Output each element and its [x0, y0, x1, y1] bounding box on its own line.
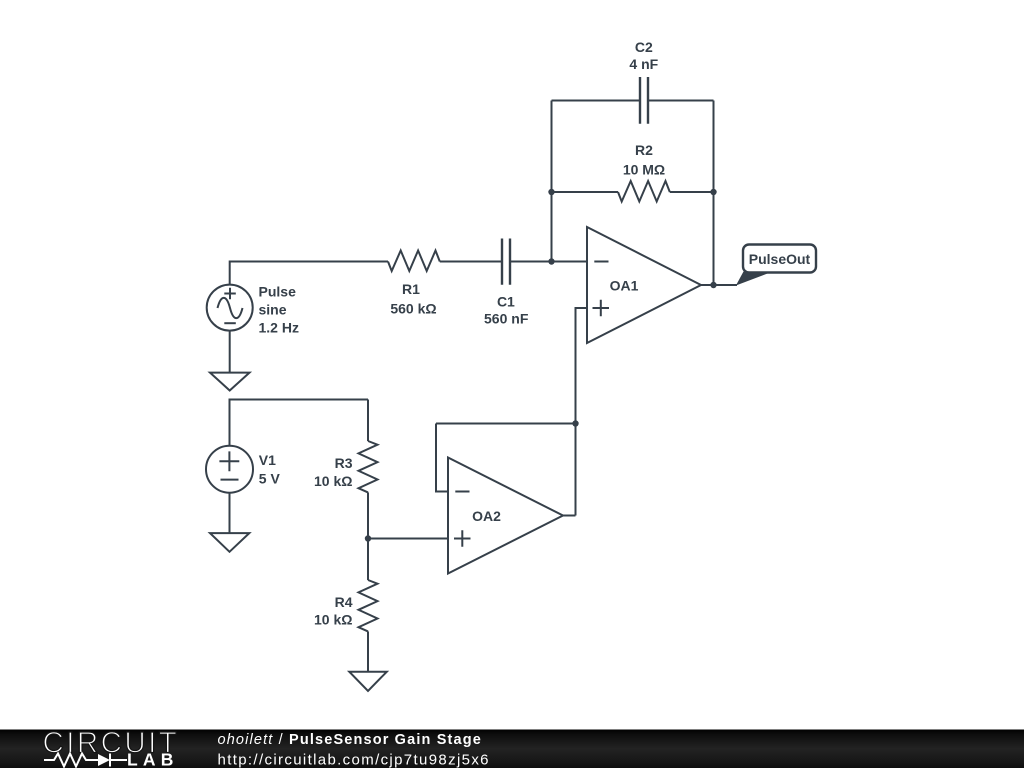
ground under pulse source: [210, 373, 250, 391]
wire left feedback rail: [551, 101, 553, 262]
resistor R3: [359, 441, 378, 492]
wire R1 to C1: [440, 261, 501, 263]
svg-text:R2: R2: [635, 142, 653, 158]
wire OA1 noninverting input down to node A: [576, 308, 588, 516]
wire pulse bottom to ground: [229, 331, 231, 373]
ground under R4: [349, 672, 387, 691]
svg-text:OA2: OA2: [472, 508, 501, 524]
wire R3 to node B: [367, 492, 369, 538]
wire V1 top: [230, 400, 369, 446]
wire node B to OA2 noninverting input: [368, 538, 448, 540]
svg-text:sine: sine: [259, 301, 287, 317]
wire top feedback to C2: [552, 100, 640, 102]
wire node B to R4: [367, 539, 369, 581]
svg-text:10 kΩ: 10 kΩ: [314, 612, 352, 628]
svg-text:10 kΩ: 10 kΩ: [314, 473, 352, 489]
wire top to R3: [367, 400, 369, 442]
svg-text:1.2 Hz: 1.2 Hz: [259, 319, 299, 335]
wire C1 to OA1 inverting input: [511, 261, 587, 263]
voltage source Pulse sine 1.2 Hz: [207, 285, 253, 331]
flag PulseOut pointer: [736, 272, 772, 286]
op-amp OA1: [587, 227, 701, 343]
svg-text:R3: R3: [335, 455, 353, 471]
svg-text:10 MΩ: 10 MΩ: [623, 162, 665, 178]
junction node dots: [365, 189, 717, 542]
voltage source V1: [206, 446, 253, 493]
wire R4 to ground: [367, 631, 369, 671]
svg-text:V1: V1: [259, 452, 276, 468]
logo resistor-diode squiggle: [44, 754, 127, 767]
capacitor C2: [640, 77, 648, 124]
svg-text:LAB: LAB: [127, 750, 179, 768]
wire OA2 feedback top: [436, 423, 576, 425]
wire right feedback rail: [713, 101, 715, 286]
wire left to R2: [552, 191, 619, 193]
svg-text:R1: R1: [402, 281, 420, 297]
capacitor C1: [502, 239, 510, 285]
svg-text:5 V: 5 V: [259, 471, 281, 487]
resistor R1: [388, 251, 440, 272]
resistor R4: [359, 580, 378, 631]
svg-text:PulseOut: PulseOut: [749, 251, 811, 267]
svg-text:http://circuitlab.com/cjp7tu98: http://circuitlab.com/cjp7tu98zj5x6: [218, 751, 490, 768]
wire R2 to right rail: [670, 191, 714, 193]
wire OA1 output: [701, 284, 737, 286]
ground under V1: [210, 533, 249, 552]
op-amp OA2: [448, 458, 563, 574]
svg-text:ohoilett / PulseSensor Gain St: ohoilett / PulseSensor Gain Stage: [218, 732, 482, 748]
svg-text:Pulse: Pulse: [259, 283, 297, 299]
wire OA2 inverting input: [436, 424, 448, 492]
svg-text:C2: C2: [635, 39, 653, 55]
resistor R2: [618, 181, 670, 202]
wire OA2 output to node A: [563, 515, 576, 517]
wire V1 bottom to ground: [229, 493, 231, 533]
svg-text:560 kΩ: 560 kΩ: [390, 301, 436, 317]
wire C2 to right rail: [649, 100, 714, 102]
svg-text:OA1: OA1: [610, 278, 639, 294]
svg-text:R4: R4: [335, 594, 353, 610]
footer bar: [0, 730, 1024, 768]
svg-text:560 nF: 560 nF: [484, 311, 529, 327]
flag PulseOut box: [743, 245, 816, 273]
svg-text:C1: C1: [497, 293, 515, 309]
wire pulse top to R1: [230, 262, 388, 285]
svg-text:4 nF: 4 nF: [629, 56, 658, 72]
